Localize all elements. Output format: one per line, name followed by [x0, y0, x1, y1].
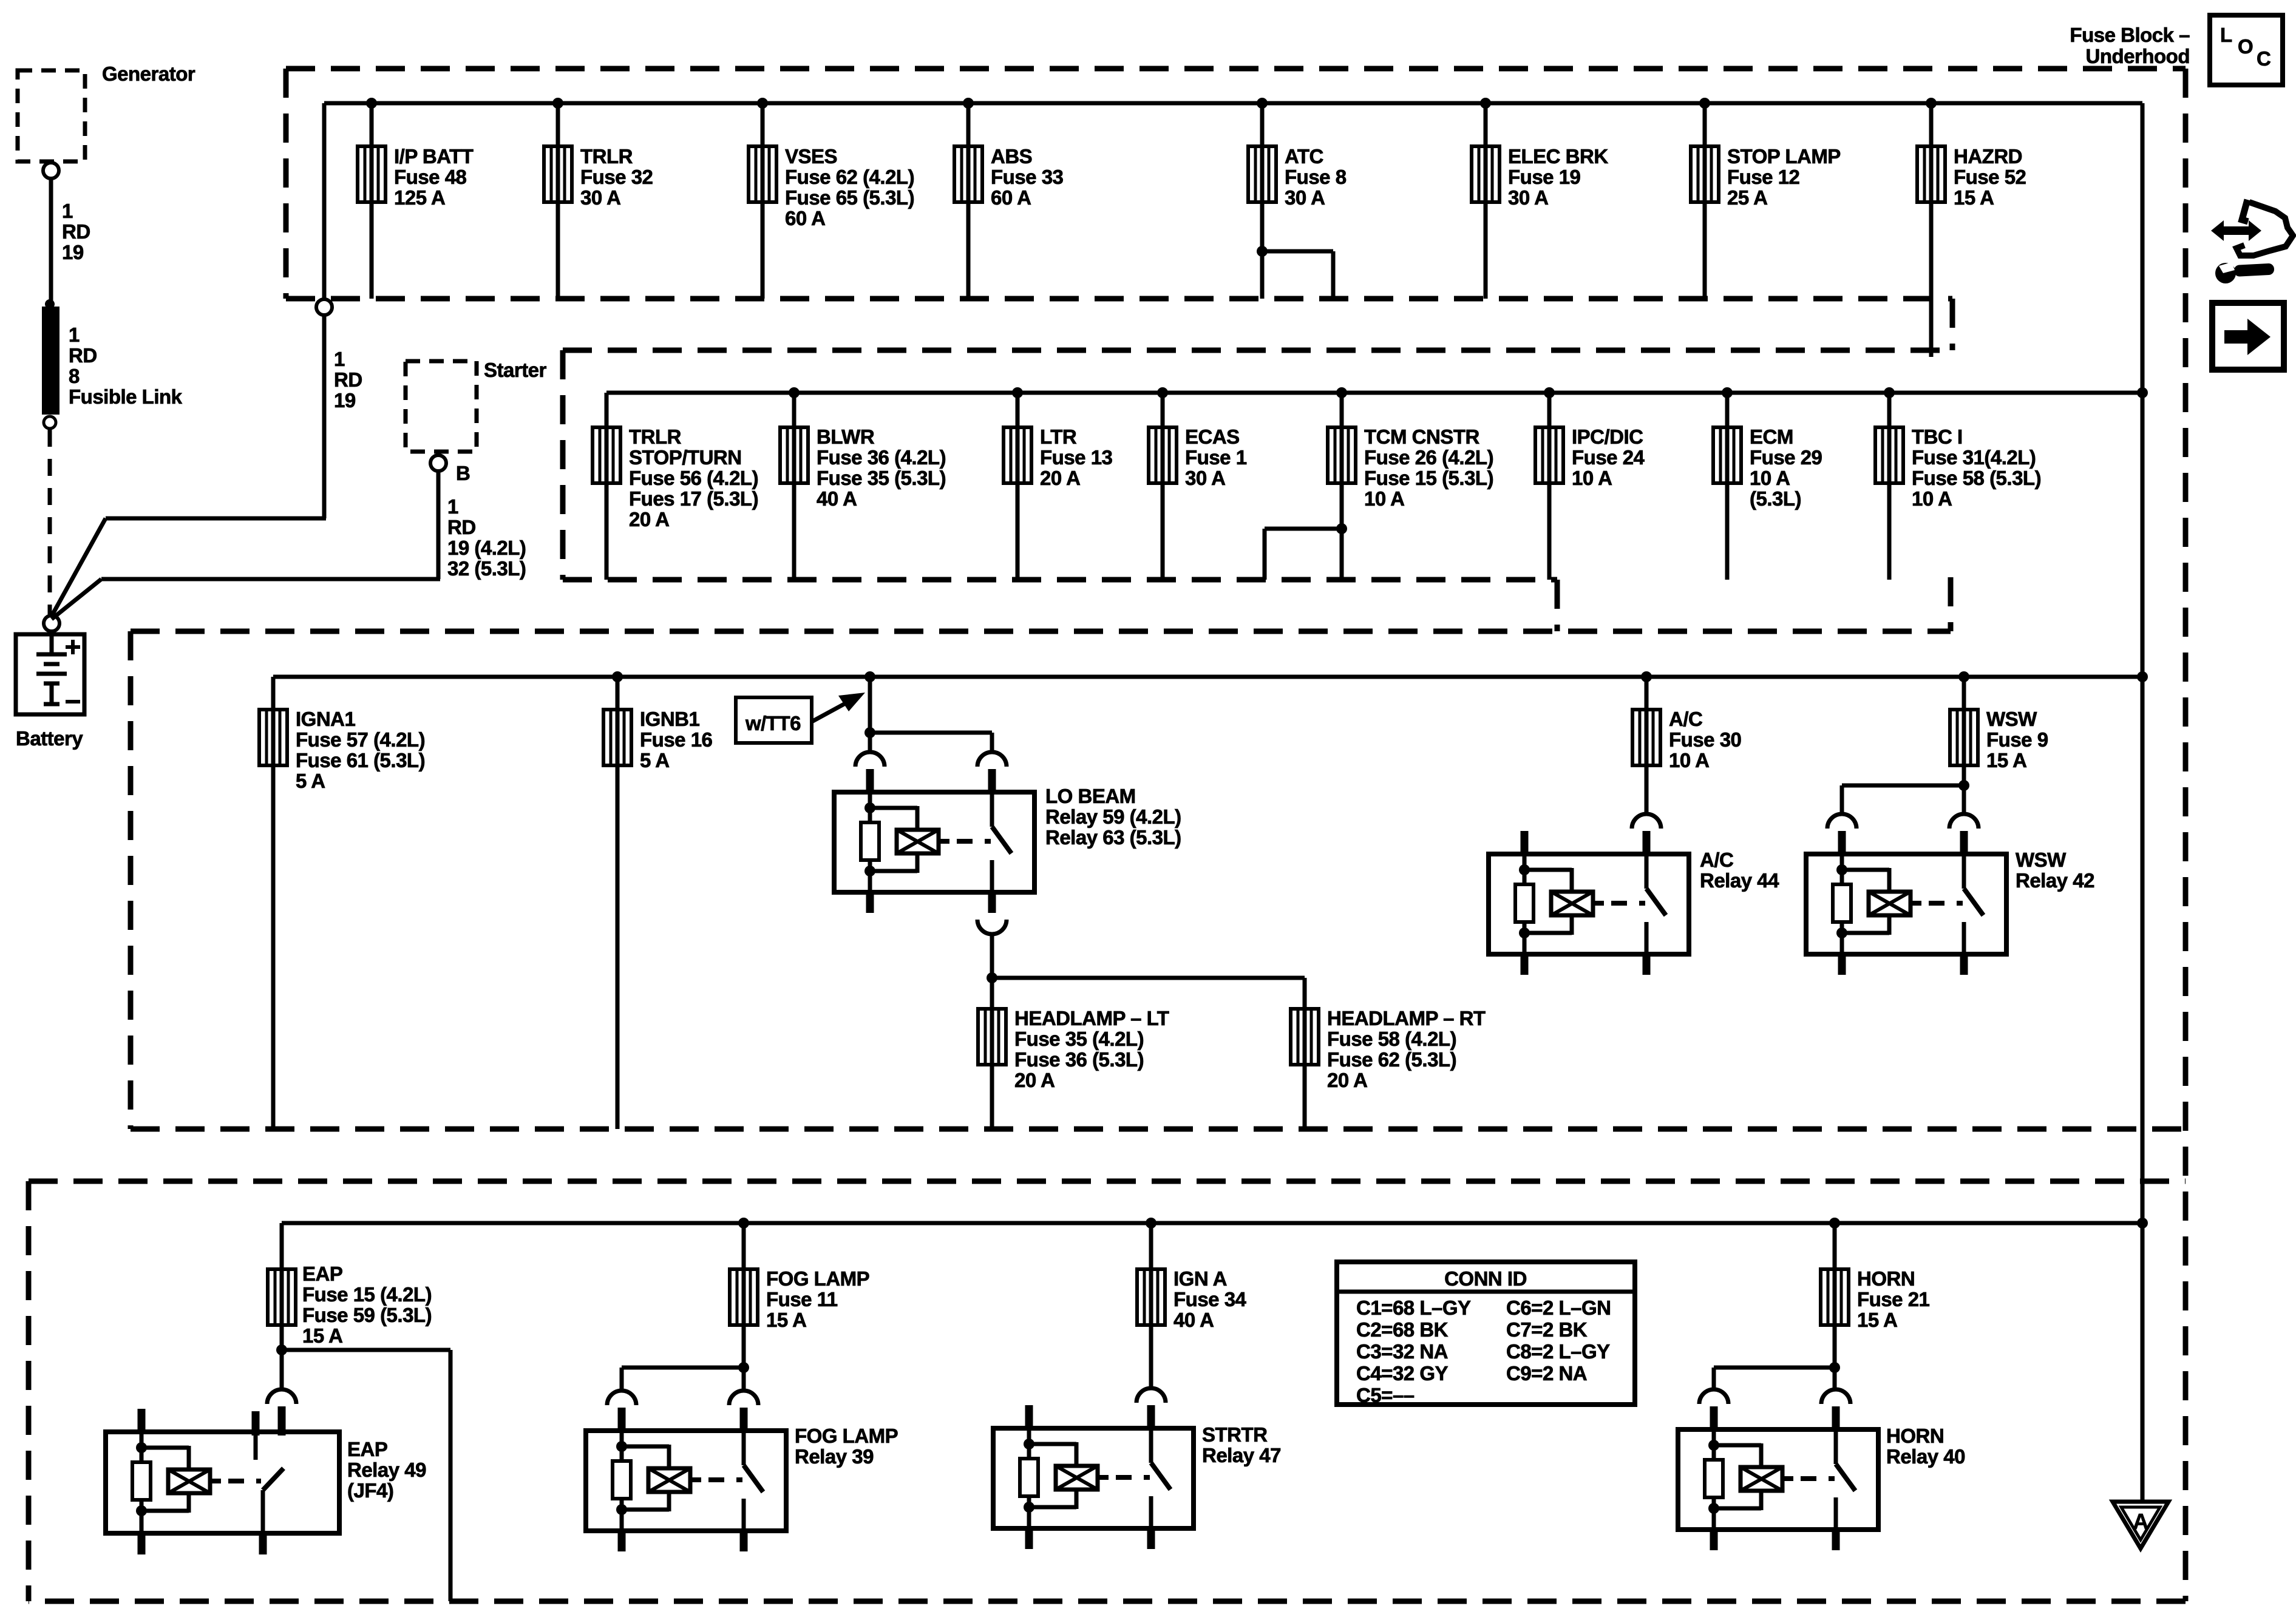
svg-text:32 (5.3L): 32 (5.3L)	[447, 557, 526, 580]
wire starter B to battery	[436, 472, 441, 579]
fuse ECM	[1713, 427, 1741, 483]
junction dot bus4 right feed	[2137, 1218, 2148, 1229]
wire branch to WSW relay coil	[1842, 784, 1964, 788]
svg-text:Fuse 16: Fuse 16	[640, 728, 713, 751]
svg-text:40 A: 40 A	[817, 487, 857, 510]
wire bus 2	[606, 391, 2142, 395]
wire bus1 left drop	[322, 103, 327, 300]
fuse block row2 dashed bump left side	[1555, 580, 1560, 631]
fuse block outer dashed boundary bottom edge	[29, 1599, 2186, 1604]
wire LO BEAM output to headlamp fuses	[990, 934, 994, 1129]
svg-text:RD: RD	[334, 368, 362, 391]
fuse LTR	[1004, 427, 1031, 483]
svg-text:HEADLAMP – RT: HEADLAMP – RT	[1327, 1007, 1486, 1029]
svg-text:30 A: 30 A	[1285, 186, 1325, 209]
fuse EAP Fuse 15/59	[268, 1269, 296, 1325]
battery box	[16, 634, 84, 714]
svg-text:Fuse 12: Fuse 12	[1727, 166, 1800, 188]
svg-text:8: 8	[69, 365, 80, 387]
fuse block row3 top dashed boundary	[131, 629, 1951, 634]
svg-text:ECAS: ECAS	[1185, 425, 1240, 448]
svg-text:Relay 47: Relay 47	[1202, 1444, 1281, 1466]
wire ECM feed	[1725, 393, 1730, 580]
fuse block row2 top dashed boundary	[563, 348, 1952, 353]
op FOG LAMP relay	[586, 1431, 786, 1531]
svg-text:C7=2 BK: C7=2 BK	[1506, 1318, 1588, 1341]
w/TT6 tag box	[736, 697, 812, 743]
svg-text:60 A: 60 A	[785, 207, 825, 229]
fuse TRLR STOP/TURN	[593, 427, 620, 483]
svg-text:Fuse 33: Fuse 33	[991, 166, 1064, 188]
svg-text:BLWR: BLWR	[817, 425, 875, 448]
svg-text:HORN: HORN	[1886, 1425, 1944, 1447]
svg-text:IGNB1: IGNB1	[640, 708, 700, 730]
svg-text:HORN: HORN	[1857, 1267, 1915, 1290]
wire ABS feed	[966, 103, 971, 299]
junction dot EAP output branch	[276, 1344, 287, 1355]
svg-text:20 A: 20 A	[1327, 1069, 1367, 1091]
svg-text:IPC/DIC: IPC/DIC	[1572, 425, 1643, 448]
fuse HEADLAMP - RT	[1291, 1009, 1319, 1065]
svg-text:25 A: 25 A	[1727, 186, 1767, 209]
junction dot TBC I on bus 2	[1884, 387, 1895, 398]
svg-text:IGNA1: IGNA1	[296, 708, 356, 730]
junction dot IGN A on bus 4	[1146, 1218, 1156, 1229]
starter dashed box	[406, 361, 477, 452]
svg-text:Fuse 11: Fuse 11	[766, 1288, 838, 1310]
wire TRLR STOP/TURN feed	[605, 393, 609, 580]
svg-text:Starter: Starter	[484, 359, 547, 381]
svg-text:STOP LAMP: STOP LAMP	[1727, 145, 1841, 168]
junction dot ABS on bus 1	[963, 98, 974, 109]
svg-text:10 A: 10 A	[1912, 487, 1952, 510]
wire LTR feed	[1016, 393, 1020, 580]
junction dot HORN on bus 4	[1829, 1218, 1840, 1229]
svg-text:10 A: 10 A	[1669, 749, 1709, 771]
svg-text:Battery: Battery	[16, 727, 83, 750]
svg-text:Fuse 34: Fuse 34	[1173, 1288, 1247, 1310]
svg-text:Fuse 26 (4.2L): Fuse 26 (4.2L)	[1364, 446, 1493, 469]
svg-text:ATC: ATC	[1285, 145, 1323, 168]
svg-text:Relay 59 (4.2L): Relay 59 (4.2L)	[1045, 805, 1181, 828]
wire right feed vertical	[2141, 103, 2145, 1501]
svg-text:RD: RD	[447, 516, 476, 538]
svg-text:C5=––: C5=––	[1356, 1384, 1415, 1406]
op WSW relay	[1806, 854, 2006, 954]
svg-text:Fuse 21: Fuse 21	[1857, 1288, 1930, 1310]
wire STOP LAMP feed	[1703, 103, 1707, 299]
junction dot HAZRD on bus 1	[1926, 98, 1937, 109]
svg-text:I/P BATT: I/P BATT	[394, 145, 474, 168]
generator output terminal circle	[43, 163, 59, 178]
svg-text:Fuse 30: Fuse 30	[1669, 728, 1741, 751]
svg-text:Fuse 36 (5.3L): Fuse 36 (5.3L)	[1014, 1048, 1144, 1071]
svg-text:10 A: 10 A	[1750, 467, 1790, 489]
fuse ECAS	[1149, 427, 1177, 483]
CONN ID table box	[1337, 1262, 1635, 1405]
fuse TRLR Fuse 32	[544, 146, 572, 202]
svg-text:ECM: ECM	[1750, 425, 1793, 448]
svg-text:TRLR: TRLR	[629, 425, 682, 448]
wire EAP output to bottom	[282, 1348, 450, 1352]
fuse TBC I	[1875, 427, 1903, 483]
svg-text:15 A: 15 A	[302, 1324, 342, 1347]
wire IGNA1 feed	[271, 677, 276, 1129]
battery plus sign	[66, 645, 80, 649]
fuse I/P BATT Fuse 48	[358, 146, 385, 202]
fuse block outer dashed boundary top edge	[286, 66, 2186, 72]
wire VSES feed	[761, 103, 765, 299]
junction dot LTR on bus 2	[1012, 387, 1023, 398]
svg-text:FOG LAMP: FOG LAMP	[766, 1267, 869, 1290]
svg-text:Fuse 8: Fuse 8	[1285, 166, 1347, 188]
svg-text:40 A: 40 A	[1173, 1309, 1214, 1331]
svg-text:STRTR: STRTR	[1202, 1423, 1268, 1446]
wire EAP fuse to relay switch pin	[280, 1358, 284, 1389]
wire FOG LAMP fuse feed	[742, 1223, 746, 1365]
svg-text:RD: RD	[62, 220, 90, 243]
junction dot IGNB1 on bus 3	[612, 671, 623, 682]
svg-text:Fuse 58 (4.2L): Fuse 58 (4.2L)	[1327, 1028, 1456, 1050]
svg-text:Fuse Block –: Fuse Block –	[2070, 24, 2190, 46]
svg-text:Fuse 48: Fuse 48	[394, 166, 467, 188]
svg-text:Fuse 35 (5.3L): Fuse 35 (5.3L)	[817, 467, 946, 489]
svg-text:IGN A: IGN A	[1173, 1267, 1227, 1290]
junction dot TCM CNSTR on bus 2	[1336, 387, 1347, 398]
svg-text:C2=68 BK: C2=68 BK	[1356, 1318, 1449, 1341]
junction dot STOP LAMP on bus 1	[1699, 98, 1710, 109]
fusible link element	[42, 307, 59, 415]
junction dot I/P BATT on bus 1	[366, 98, 377, 109]
svg-text:CONN ID: CONN ID	[1444, 1267, 1527, 1290]
junction dot TCM CNSTR output fork	[1336, 523, 1347, 534]
svg-text:15 A: 15 A	[1954, 186, 1994, 209]
junction dot bus3 right feed	[2137, 671, 2148, 682]
svg-text:Fuse 1: Fuse 1	[1185, 446, 1247, 469]
svg-text:A/C: A/C	[1700, 849, 1733, 871]
LOC legend box	[2210, 15, 2283, 85]
junction dot WSW on bus 3	[1958, 671, 1969, 682]
fuse VSES Fuse 62 (4.2L)	[749, 146, 776, 202]
fuse block dashed step between row1 and row2	[1950, 299, 1955, 350]
wire A/C fuse feed	[1645, 677, 1649, 814]
svg-text:LTR: LTR	[1040, 425, 1077, 448]
wire branch to HORN relay coil	[1714, 1366, 1835, 1370]
I/P feed terminal circle	[316, 299, 332, 315]
svg-text:Fuse 15 (5.3L): Fuse 15 (5.3L)	[1364, 467, 1493, 489]
svg-text:125 A: 125 A	[394, 186, 445, 209]
fuse WSW Fuse 9	[1950, 710, 1978, 765]
service tools icon (arrow and wrench)	[2211, 220, 2261, 241]
junction dot A/C on bus 3	[1641, 671, 1652, 682]
junction dot ELEC BRK on bus 1	[1480, 98, 1491, 109]
wire BLWR feed	[792, 393, 796, 580]
svg-text:1: 1	[447, 495, 458, 518]
battery minus sign	[66, 700, 80, 703]
fuse ATC Fuse 8	[1248, 146, 1276, 202]
svg-text:O: O	[2238, 35, 2253, 58]
svg-text:EAP: EAP	[302, 1263, 342, 1285]
svg-text:Fuse 13: Fuse 13	[1040, 446, 1113, 469]
fuse ELEC BRK Fuse 19	[1472, 146, 1500, 202]
svg-text:20 A: 20 A	[629, 508, 669, 531]
svg-text:Fuse 62 (5.3L): Fuse 62 (5.3L)	[1327, 1048, 1456, 1071]
fuse block row3 left dashed edge	[128, 631, 134, 1129]
fuse IGN A Fuse 34	[1137, 1269, 1165, 1325]
svg-text:HEADLAMP – LT: HEADLAMP – LT	[1014, 1007, 1169, 1029]
junction dot bus2 right feed	[2137, 387, 2148, 398]
svg-text:1: 1	[334, 348, 345, 370]
fuse A/C Fuse 30	[1632, 710, 1660, 765]
svg-text:ELEC BRK: ELEC BRK	[1508, 145, 1608, 168]
svg-text:30 A: 30 A	[580, 186, 620, 209]
svg-text:19 (4.2L): 19 (4.2L)	[447, 537, 526, 559]
svg-text:TBC I: TBC I	[1912, 425, 1963, 448]
wire ECAS feed	[1161, 393, 1165, 580]
fuse block row3 bottom dashed boundary	[131, 1127, 2186, 1132]
wire EAP fuse feed	[280, 1223, 284, 1358]
generator dashed box	[18, 70, 85, 161]
fuse HEADLAMP - LT	[978, 1009, 1006, 1065]
wire IPC/DIC feed	[1547, 393, 1552, 580]
svg-text:Fues 17 (5.3L): Fues 17 (5.3L)	[629, 487, 758, 510]
fuse block row1 bottom dashed boundary	[286, 296, 1952, 302]
fuse ABS Fuse 33	[954, 146, 982, 202]
fuse block outer dashed boundary right edge	[2183, 69, 2189, 1601]
wire generator to fusible link	[49, 178, 53, 304]
svg-text:10 A: 10 A	[1364, 487, 1404, 510]
svg-text:LO BEAM: LO BEAM	[1045, 785, 1136, 807]
svg-text:Fuse 15 (4.2L): Fuse 15 (4.2L)	[302, 1283, 432, 1306]
svg-text:Fuse 59 (5.3L): Fuse 59 (5.3L)	[302, 1304, 432, 1326]
wire LO BEAM relay coil feed	[868, 677, 872, 752]
svg-text:A: A	[2133, 1509, 2148, 1534]
svg-text:C8=2 L–GY: C8=2 L–GY	[1506, 1340, 1610, 1363]
svg-text:Fuse 62 (4.2L): Fuse 62 (4.2L)	[785, 166, 914, 188]
op A/C relay	[1489, 854, 1689, 954]
svg-text:Relay 63 (5.3L): Relay 63 (5.3L)	[1045, 826, 1181, 849]
wire TCM CNSTR feed	[1340, 393, 1344, 580]
junction dot ECM on bus 2	[1722, 387, 1733, 398]
junction dot ATC on bus 1	[1257, 98, 1268, 109]
fuse HAZRD Fuse 52	[1917, 146, 1945, 202]
wire HAZRD feed	[1929, 103, 1934, 357]
fuse IGNB1 Fuse 16	[603, 710, 631, 765]
wire WSW fuse feed	[1962, 677, 1966, 814]
wire ATC second output	[1262, 249, 1333, 254]
svg-text:30 A: 30 A	[1185, 467, 1225, 489]
svg-text:FOG LAMP: FOG LAMP	[795, 1425, 898, 1447]
op LO BEAM relay	[834, 792, 1034, 892]
svg-text:TRLR: TRLR	[580, 145, 633, 168]
svg-text:C4=32 GY: C4=32 GY	[1356, 1362, 1448, 1385]
svg-text:Fuse 65 (5.3L): Fuse 65 (5.3L)	[785, 186, 914, 209]
junction dot TRLR on bus 1	[552, 98, 563, 109]
svg-text:L: L	[2220, 24, 2232, 46]
w/TT6 arrow	[812, 699, 853, 722]
battery positive terminal circle	[44, 615, 59, 631]
svg-text:10 A: 10 A	[1572, 467, 1612, 489]
svg-text:B: B	[456, 462, 470, 484]
svg-text:Generator: Generator	[102, 63, 195, 85]
svg-text:A/C: A/C	[1669, 708, 1702, 730]
wire I/P feed to battery	[322, 315, 327, 518]
svg-text:VSES: VSES	[785, 145, 837, 168]
svg-text:Fuse 29: Fuse 29	[1750, 446, 1822, 469]
wire bus 3	[273, 675, 2142, 679]
svg-text:Relay 39: Relay 39	[795, 1445, 874, 1468]
wire TRLR feed	[556, 103, 560, 299]
node A off-page triangle	[2113, 1502, 2169, 1548]
svg-text:15 A: 15 A	[766, 1309, 806, 1331]
junction dot IPC/DIC on bus 2	[1544, 387, 1555, 398]
svg-text:1: 1	[62, 200, 73, 222]
junction dot LO BEAM switch branch	[864, 727, 875, 738]
wire IGNB1 feed	[616, 677, 620, 1129]
wire HORN fuse to relay switch pin	[1833, 1368, 1837, 1389]
svg-text:Fuse 61 (5.3L): Fuse 61 (5.3L)	[296, 749, 425, 771]
op HORN relay	[1678, 1429, 1878, 1530]
svg-text:Fuse 35 (4.2L): Fuse 35 (4.2L)	[1014, 1028, 1144, 1050]
wire TCM CNSTR second output	[1265, 527, 1342, 531]
op STRTR relay	[993, 1428, 1194, 1528]
svg-text:60 A: 60 A	[991, 186, 1031, 209]
op EAP relay (special switch)	[106, 1432, 339, 1533]
svg-text:Relay 40: Relay 40	[1886, 1445, 1965, 1468]
fuse block row4 top dashed boundary	[29, 1179, 2186, 1184]
svg-text:Fuse 31(4.2L): Fuse 31(4.2L)	[1912, 446, 2036, 469]
junction dot ECAS on bus 2	[1157, 387, 1168, 398]
svg-text:Relay 42: Relay 42	[2016, 869, 2094, 892]
junction dot headlamp branch	[987, 972, 997, 983]
junction dot BLWR on bus 2	[789, 387, 800, 398]
svg-text:Fuse 52: Fuse 52	[1954, 166, 2026, 188]
svg-text:Fuse 58 (5.3L): Fuse 58 (5.3L)	[1912, 467, 2041, 489]
fuse IPC/DIC	[1535, 427, 1563, 483]
svg-text:Underhood: Underhood	[2086, 45, 2190, 67]
wire bus 1	[324, 101, 2142, 106]
svg-text:5 A: 5 A	[296, 770, 325, 792]
svg-text:EAP: EAP	[347, 1438, 387, 1460]
wire I/P BATT feed	[370, 103, 374, 299]
svg-text:5 A: 5 A	[640, 749, 670, 771]
svg-text:20 A: 20 A	[1040, 467, 1080, 489]
fuse STOP LAMP Fuse 12	[1691, 146, 1719, 202]
fuse HORN Fuse 21	[1821, 1269, 1849, 1325]
svg-text:WSW: WSW	[2016, 849, 2067, 871]
svg-text:Fuse 32: Fuse 32	[580, 166, 653, 188]
svg-text:30 A: 30 A	[1508, 186, 1548, 209]
svg-text:Fuse 24: Fuse 24	[1572, 446, 1645, 469]
svg-text:ABS: ABS	[991, 145, 1032, 168]
starter B terminal circle	[430, 455, 446, 471]
svg-text:C1=68 L–GY: C1=68 L–GY	[1356, 1297, 1471, 1319]
fuse block row4 left dashed edge	[26, 1181, 32, 1601]
svg-text:C9=2 NA: C9=2 NA	[1506, 1362, 1587, 1385]
fuse FOG LAMP Fuse 11	[730, 1269, 758, 1325]
wire ELEC BRK feed	[1484, 103, 1488, 299]
svg-text:(5.3L): (5.3L)	[1750, 487, 1801, 510]
svg-text:Fuse 56 (4.2L): Fuse 56 (4.2L)	[629, 467, 758, 489]
svg-text:Relay 44: Relay 44	[1700, 869, 1779, 892]
svg-text:Fuse 36 (4.2L): Fuse 36 (4.2L)	[817, 446, 946, 469]
svg-text:C: C	[2257, 47, 2271, 70]
wire HEADLAMP-RT feed	[1303, 978, 1307, 1129]
fuse block outer dashed boundary left edge upper segment	[284, 69, 289, 299]
svg-text:Fuse 57 (4.2L): Fuse 57 (4.2L)	[296, 728, 425, 751]
svg-text:RD: RD	[69, 344, 97, 367]
wire TBC I feed	[1887, 393, 1892, 580]
wire branch to LO BEAM switch pin	[870, 731, 992, 735]
junction dot ATC output fork	[1257, 246, 1268, 257]
junction dot VSES on bus 1	[757, 98, 768, 109]
fusible link bottom terminal circle	[44, 416, 56, 429]
svg-text:Fusible Link: Fusible Link	[69, 385, 183, 408]
fuse IGNA1 Fuse 57/61	[259, 710, 287, 765]
wire IGN A fuse feed	[1149, 1223, 1153, 1388]
svg-text:TCM CNSTR: TCM CNSTR	[1364, 425, 1479, 448]
svg-text:WSW: WSW	[1986, 708, 2037, 730]
fuse block row2 bottom dashed boundary left part	[563, 577, 1557, 583]
svg-text:Fuse 9: Fuse 9	[1986, 728, 2048, 751]
junction dot fusible link top	[45, 299, 55, 309]
svg-text:15 A: 15 A	[1986, 749, 2026, 771]
svg-text:HAZRD: HAZRD	[1954, 145, 2022, 168]
svg-text:Fuse 19: Fuse 19	[1508, 166, 1581, 188]
svg-text:19: 19	[334, 389, 356, 412]
dashed wire fusible link to battery	[48, 430, 52, 614]
CONN ID header divider	[1337, 1290, 1635, 1294]
wire branch to FOG relay coil	[622, 1366, 744, 1370]
svg-text:20 A: 20 A	[1014, 1069, 1055, 1091]
svg-text:STOP/TURN: STOP/TURN	[629, 446, 742, 469]
wire ATC feed	[1260, 103, 1265, 299]
wire bus 4	[282, 1221, 2142, 1225]
junction dot FOG LAMP on bus 4	[738, 1218, 749, 1229]
fuse BLWR	[780, 427, 808, 483]
svg-text:1: 1	[69, 324, 80, 346]
fuse block row2 dashed bump right side	[1948, 577, 1954, 631]
svg-text:w/TT6: w/TT6	[745, 712, 801, 734]
junction dot WSW coil branch	[1958, 780, 1969, 791]
fuse TCM CNSTR	[1328, 427, 1356, 483]
wire HORN fuse feed	[1833, 1223, 1837, 1365]
svg-text:15 A: 15 A	[1857, 1309, 1897, 1331]
junction dot HORN coil branch	[1829, 1362, 1840, 1373]
svg-text:Relay 49: Relay 49	[347, 1459, 426, 1481]
svg-text:(JF4): (JF4)	[347, 1479, 393, 1502]
wire FOG fuse to relay switch pin	[742, 1368, 746, 1391]
battery cell plates	[50, 631, 54, 653]
junction dot LO BEAM feed on bus 3	[864, 671, 875, 682]
svg-text:C6=2 L–GN: C6=2 L–GN	[1506, 1297, 1611, 1319]
svg-text:19: 19	[62, 241, 84, 263]
svg-text:C3=32 NA: C3=32 NA	[1356, 1340, 1448, 1363]
fuse block row2 left dashed edge	[560, 350, 566, 580]
page continuation arrow icon	[2212, 303, 2284, 370]
junction dot FOG LAMP coil branch	[738, 1362, 749, 1373]
